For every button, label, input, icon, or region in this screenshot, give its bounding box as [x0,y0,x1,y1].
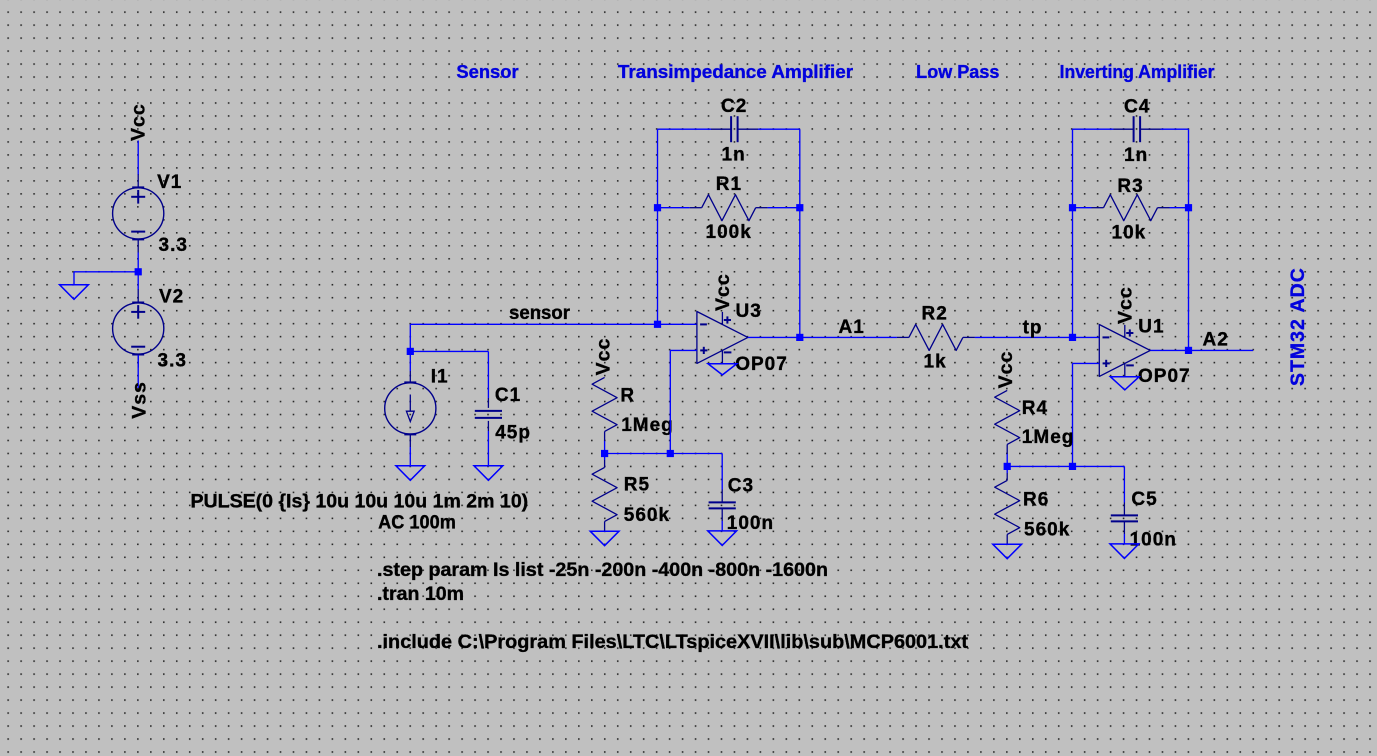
wire R5 node to C3 node [605,453,671,455]
svg-text:Inverting Amplifier: Inverting Amplifier [1060,62,1215,82]
svg-text:Vcc: Vcc [995,351,1017,389]
svg-text:A1: A1 [839,317,865,338]
wire U1 + down to bias node [1072,363,1074,466]
svg-text:OP07: OP07 [1138,366,1191,387]
svg-text:OP07: OP07 [735,354,788,375]
junction U1 bias node [1069,463,1076,470]
junction R3 left [1069,204,1076,211]
svg-text:Vcc: Vcc [1114,286,1136,324]
wire feedback top left (C4) [1073,128,1114,130]
wire Vcc to V1 [137,141,139,176]
wire sensor net horizontal [410,323,657,325]
junction R/R5 node [601,450,608,457]
wire R2 to tp node [975,336,1073,338]
wire V1 to node [137,253,139,272]
junction sensor/inverting input [654,321,661,328]
svg-text:560k: 560k [1024,519,1070,540]
svg-text:3.3: 3.3 [159,235,188,256]
svg-text:1n: 1n [1124,145,1148,166]
svg-text:AC 100m: AC 100m [378,512,456,534]
svg-text:1Meg: 1Meg [1022,427,1075,448]
svg-text:.include C:\Program Files\LTC\: .include C:\Program Files\LTC\LTspiceXVI… [377,631,969,653]
wire feedback left vertical [657,129,659,324]
wire output to ADC [1189,349,1254,351]
junction U1 output node [1185,347,1192,354]
svg-text:V1: V1 [157,172,182,193]
wire to U3 inverting input [658,323,697,325]
junction R4/R6 node [1004,463,1011,470]
resistor R1 [658,195,800,221]
op-amp U1 [1099,325,1150,377]
svg-text:U1: U1 [1138,316,1164,337]
svg-text:100k: 100k [706,222,752,243]
wire U3 output [748,336,800,338]
ground (R6) [993,544,1022,559]
wire U3 noninverting input [670,349,697,351]
capacitor C5 [1073,466,1139,544]
ground (C1) [474,466,503,481]
wire node to V2 [137,272,139,290]
svg-text:STM32 ADC: STM32 ADC [1287,267,1309,386]
svg-text:C5: C5 [1131,489,1157,510]
svg-text:Vss: Vss [129,381,151,419]
svg-text:1Meg: 1Meg [621,415,674,436]
resistor R3 [1073,195,1189,221]
wire V2 to Vss [137,355,139,388]
svg-text:3.3: 3.3 [158,351,187,372]
svg-text:Vcc: Vcc [712,273,734,311]
svg-text:1n: 1n [722,145,746,166]
junction R3 right [1185,204,1192,211]
wire to U1 inverting input [1073,336,1100,338]
svg-text:Transimpedance Amplifier: Transimpedance Amplifier [618,62,853,82]
wire feedback top right [758,128,800,130]
capacitor C2 [711,116,758,142]
wire feedback top right (C4) [1161,128,1189,130]
junction I1/C1 node [407,348,414,355]
ground (R5) [590,531,619,546]
svg-text:C3: C3 [728,475,754,496]
wire node to ground [74,271,138,273]
wire feedback left vertical (U1) [1072,129,1074,337]
svg-text:C2: C2 [721,96,747,117]
svg-text:A2: A2 [1203,329,1229,350]
wire U3 output to R2 [800,336,897,338]
junction V1/V2 node [135,268,142,275]
svg-text:R5: R5 [624,474,650,495]
wire U1 output [1150,349,1188,351]
current source I1 [385,371,436,447]
svg-text:I1: I1 [431,367,449,388]
wire node to I1 [409,351,411,371]
svg-text:10k: 10k [1112,222,1147,243]
wire sensor down to I1 node [409,324,411,351]
wire I1 to ground [409,447,411,466]
resistor R5 [592,454,617,532]
svg-text:R3: R3 [1117,176,1143,197]
svg-text:tp: tp [1023,317,1043,338]
svg-text:100n: 100n [1130,529,1177,550]
svg-text:Vcc: Vcc [127,103,149,141]
capacitor C1 [475,351,502,465]
capacitor C4 [1114,116,1161,142]
resistor R [592,377,617,453]
ground (supply midpoint) [73,272,75,285]
svg-text:.step param Is list -25n -200n: .step param Is list -25n -200n -400n -80… [377,559,828,581]
wire feedback top left [658,128,712,130]
junction bias/C3 node [667,450,674,457]
wire U1 noninverting input [1073,362,1100,364]
svg-text:Low Pass: Low Pass [916,62,999,82]
wire feedback right vertical (U1) [1188,129,1190,350]
ground (I1) [396,466,425,481]
ground (U3 negative supply) [708,364,737,375]
resistor R4 [995,390,1020,466]
wire feedback right vertical [799,129,801,337]
svg-text:Vcc: Vcc [593,338,615,376]
resistor R6 [995,466,1020,544]
op-amp U3 [697,312,748,364]
voltage source V2 [113,289,164,367]
svg-text:R2: R2 [922,304,948,325]
resistor R2 [897,324,975,350]
junction U3 output node [796,334,803,341]
svg-text:1k: 1k [924,351,947,372]
svg-text:.tran 10m: .tran 10m [377,583,464,605]
junction R1 left [654,204,661,211]
voltage source V1 [113,174,164,252]
svg-text:PULSE(0 {Is} 10u 10u 10u 1m 2m: PULSE(0 {Is} 10u 10u 10u 1m 2m 10) [191,490,529,512]
svg-text:560k: 560k [624,505,670,526]
svg-text:R: R [620,386,635,407]
svg-text:sensor: sensor [509,303,571,324]
junction R1 right [796,204,803,211]
svg-text:C1: C1 [495,385,521,406]
ground (C3) [708,531,737,546]
svg-text:V2: V2 [159,287,184,308]
wire bias node left to R4 [1007,465,1072,467]
svg-text:R1: R1 [716,174,742,195]
wire bias node up to U3 + [669,350,671,453]
svg-text:Sensor: Sensor [456,62,518,82]
ground (C5) [1110,544,1139,559]
junction tp/U1 inverting node [1069,334,1076,341]
svg-text:C4: C4 [1124,97,1150,118]
svg-text:45p: 45p [495,423,531,444]
svg-text:R4: R4 [1022,398,1048,419]
capacitor C3 [670,454,736,531]
wire node to C1 [410,350,488,352]
ground (U1 negative supply) [1110,377,1139,390]
svg-text:U3: U3 [736,301,762,322]
svg-text:R6: R6 [1023,489,1049,510]
